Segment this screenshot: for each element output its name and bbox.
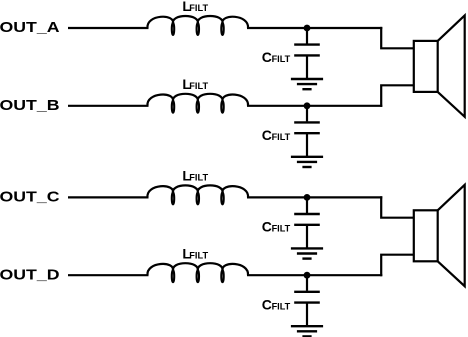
capacitor C4 top plate — [294, 291, 320, 293]
ground symbol below C3 — [291, 248, 323, 258]
wire: OUT_A to inductor L1 — [68, 27, 149, 29]
ground symbol below C2 — [291, 157, 323, 167]
inductor L2 loop 3 — [221, 101, 223, 113]
capacitor C3 top plate — [294, 213, 320, 215]
wire: OUT_B to inductor L2 — [68, 105, 149, 107]
inductor L4 loop 2 — [197, 270, 199, 282]
svg-text:OUT_A: OUT_A — [0, 19, 60, 36]
wire: OUT_A branch down to speaker SPK1 plus terminal — [381, 27, 414, 48]
wire: OUT_C branch down to speaker SPK2 plus terminal — [381, 196, 414, 217]
inductor L4 value label L_FILT — [182, 245, 208, 261]
junction dot at C2 node — [304, 102, 311, 109]
inductor L2 loop 2 — [197, 101, 199, 113]
wire: inductor L2 to junction and speaker branch — [247, 105, 382, 107]
svg-text:OUT_D: OUT_D — [0, 266, 60, 283]
wire: inductor L1 to junction and speaker branch — [247, 27, 382, 29]
inductor L3 loop 2 — [197, 193, 199, 205]
speaker SPK1 cone — [438, 15, 465, 116]
capacitor C4 value label C_FILT — [262, 296, 291, 312]
svg-text:FILT: FILT — [189, 173, 208, 184]
wire: junction to capacitor C3 top plate — [306, 197, 308, 213]
svg-text:C: C — [262, 296, 272, 312]
inductor L4 loop 1 — [172, 270, 174, 282]
inductor L3 winding — [147, 185, 248, 197]
svg-text:OUT_C: OUT_C — [0, 189, 60, 206]
capacitor C1 top plate — [294, 43, 320, 45]
ground symbol below C4 — [291, 326, 323, 336]
inductor L1 value label L_FILT — [182, 0, 208, 14]
capacitor C4 bottom plate — [294, 301, 320, 303]
capacitor C1 value label C_FILT — [262, 49, 291, 65]
svg-text:FILT: FILT — [189, 81, 208, 92]
svg-text:FILT: FILT — [189, 3, 208, 14]
inductor L1 loop 2 — [197, 23, 199, 35]
svg-text:OUT_B: OUT_B — [0, 97, 60, 114]
wire: junction to capacitor C4 top plate — [306, 275, 308, 291]
svg-text:FILT: FILT — [272, 132, 291, 143]
wire: junction to capacitor C2 top plate — [306, 106, 308, 122]
capacitor C2 bottom plate — [294, 132, 320, 134]
junction dot at C4 node — [304, 272, 311, 279]
wire: OUT_D branch up to speaker SPK2 minus terminal — [381, 255, 414, 277]
wire: capacitor C3 bottom plate to ground — [306, 225, 308, 249]
inductor L2 value label L_FILT — [182, 76, 208, 92]
wire: OUT_C to inductor L3 — [68, 196, 149, 198]
wire: capacitor C4 bottom plate to ground — [306, 303, 308, 327]
junction dot at C1 node — [304, 25, 311, 32]
capacitor C3 bottom plate — [294, 224, 320, 226]
svg-text:C: C — [262, 219, 272, 235]
inductor L4 winding — [147, 263, 248, 275]
wire: inductor L3 to junction and speaker branch — [247, 196, 382, 198]
inductor L3 value label L_FILT — [182, 168, 208, 184]
wire: capacitor C2 bottom plate to ground — [306, 133, 308, 157]
inductor L4 loop 3 — [221, 270, 223, 282]
wire: OUT_D to inductor L4 — [68, 274, 149, 276]
speaker SPK2 driver body — [414, 210, 438, 261]
capacitor C2 top plate — [294, 121, 320, 123]
inductor L1 loop 1 — [172, 23, 174, 35]
svg-text:FILT: FILT — [272, 224, 291, 235]
capacitor C2 value label C_FILT — [262, 127, 291, 143]
wire: inductor L4 to junction and speaker branch — [247, 274, 382, 276]
svg-text:C: C — [262, 127, 272, 143]
svg-text:C: C — [262, 49, 272, 65]
capacitor C3 value label C_FILT — [262, 219, 291, 235]
inductor L2 loop 1 — [172, 101, 174, 113]
inductor L1 loop 3 — [221, 23, 223, 35]
capacitor C1 bottom plate — [294, 54, 320, 56]
wire: capacitor C1 bottom plate to ground — [306, 55, 308, 79]
svg-text:FILT: FILT — [272, 54, 291, 65]
inductor L2 winding — [147, 94, 248, 106]
inductor L1 winding — [147, 16, 248, 28]
junction dot at C3 node — [304, 194, 311, 201]
speaker SPK2 cone — [438, 185, 465, 286]
inductor L3 loop 3 — [221, 193, 223, 205]
speaker SPK1 driver body — [414, 41, 438, 92]
ground symbol below C1 — [291, 79, 323, 89]
wire: junction to capacitor C1 top plate — [306, 28, 308, 44]
svg-text:FILT: FILT — [272, 301, 291, 312]
inductor L3 loop 1 — [172, 193, 174, 205]
wire: OUT_B branch up to speaker SPK1 minus terminal — [381, 85, 414, 107]
svg-text:FILT: FILT — [189, 250, 208, 261]
